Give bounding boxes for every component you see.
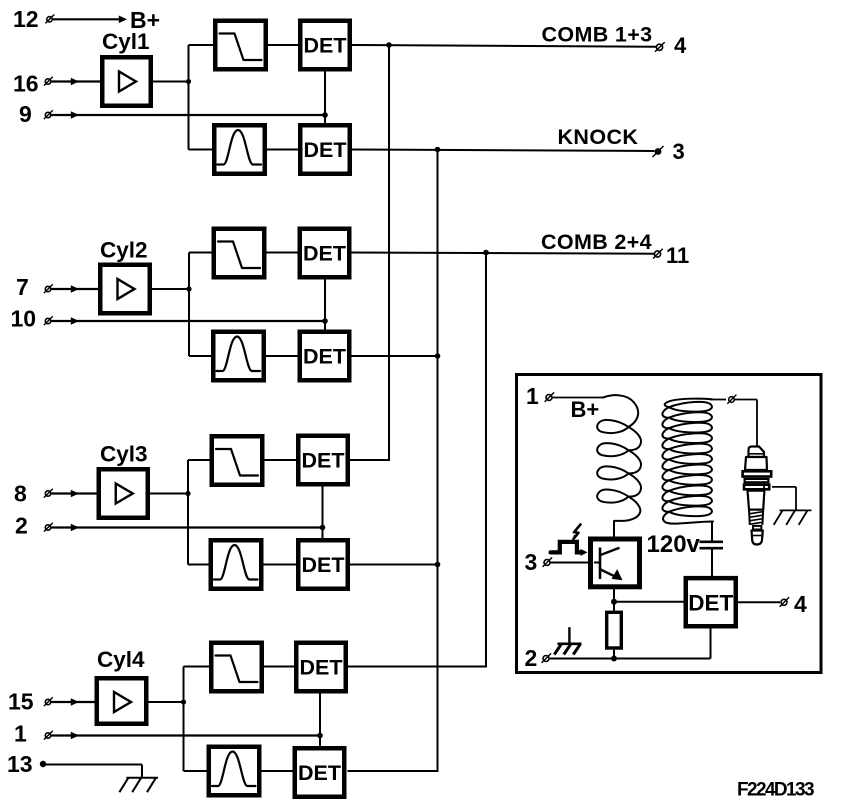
terminal sub pin 3 [543,557,553,567]
terminal pin 8 [44,489,53,498]
svg-text:2: 2 [525,645,538,671]
svg-text:DET: DET [298,761,341,785]
svg-text:COMB 2+4: COMB 2+4 [541,230,652,254]
low-pass filter Cyl1 [215,21,266,70]
node amp-split Cyl1 [186,79,191,84]
DET Cyl4 comb detector [296,643,346,692]
wire amp Cyl3 output [150,493,188,495]
svg-text:2: 2 [15,513,28,539]
amplifier Cyl3 [99,469,148,518]
terminal pin 7 [44,284,53,293]
node COMB bus junction [386,42,392,48]
svg-text:DET: DET [688,591,733,616]
svg-text:1: 1 [14,721,27,747]
low-pass filter Cyl4 [211,643,262,692]
node COMB 2+4 bus junction [483,250,489,256]
band-pass curve Cyl1 [218,130,262,165]
transistor Q1 box [591,539,640,587]
wire primary coil to transistor [613,521,615,538]
svg-text:DET: DET [300,656,343,680]
terminal pin 10 [44,316,53,325]
wire low-pass to DET Cyl4 [264,666,296,668]
node aux junction Cyl1 [322,112,328,118]
svg-text:DET: DET [302,553,345,577]
terminal pin 1 [44,731,53,740]
svg-text:F224D133: F224D133 [737,780,814,801]
svg-text:13: 13 [7,751,33,777]
wire transistor emitter down [613,589,615,602]
node emitter junction [611,599,617,605]
DET U2 (sub) [686,578,736,626]
band-pass curve Cyl3 [214,545,258,580]
wire low-pass to DET Cyl3 [265,459,299,461]
svg-text:11: 11 [666,243,689,268]
wire split vertical Cyl2 [188,253,190,357]
svg-text:8: 8 [14,481,27,507]
band-pass filter Cyl2 [213,332,264,381]
DET Cyl2 comb detector [300,229,350,278]
wire spark plug to ground [772,486,796,488]
svg-text:DET: DET [303,345,346,369]
wire split vertical Cyl1 [188,45,190,150]
wire COMB 1+3 bus vertical [388,45,390,460]
wire to low-pass Cyl2 [189,252,214,254]
DET Cyl2 knock detector [300,332,350,381]
node amp-split Cyl2 [186,286,191,291]
inductor secondary coil [662,399,713,524]
DET Cyl1 knock detector [300,125,350,174]
wire to band-pass Cyl3 [188,564,211,566]
ground spark plug [774,510,812,525]
wire split vertical Cyl4 [183,667,185,772]
wire capacitor to DET [711,550,713,578]
wire pin 16 to amp Cyl1 [51,80,102,82]
terminal pin 12 [45,15,54,24]
wire resistor to ground rail [613,650,615,659]
band-pass curve Cyl2 [217,337,261,372]
terminal pin 11 [653,249,663,259]
low-pass curve Cyl3 [216,449,258,476]
node resistor-ground junction [611,656,617,662]
wire KNOCK bus vertical [437,150,439,772]
band-pass filter Cyl3 [211,540,262,589]
DET Cyl4 knock detector [295,748,345,797]
inductor primary coil [597,395,641,537]
wire secondary top to spark plug [710,399,726,401]
wire split vertical Cyl3 [187,460,189,565]
spark plug [743,447,772,545]
wire junction to resistor [613,602,615,611]
amplifier Cyl4 [97,678,147,724]
amplifier Cyl1 [102,57,151,106]
wire to band-pass Cyl2 [189,355,213,357]
wire DET output (sub) [738,601,780,603]
wire Cyl3 DET to KNOCK bus [350,564,438,566]
svg-text:B+: B+ [571,397,600,422]
wire amp Cyl1 output [153,81,189,83]
svg-text:Cyl3: Cyl3 [100,442,148,467]
svg-text:DET: DET [302,449,345,473]
band-pass filter Cyl4 [209,747,260,796]
wire pin 13 [43,764,142,766]
wire low-pass to DET Cyl2 [267,252,300,254]
terminal pin 3 [655,148,662,155]
DET Cyl1 comb detector [300,21,350,70]
svg-text:12: 12 [13,6,39,32]
wire DET gate vertical Cyl3 [322,487,324,539]
wire pin 15 to amp Cyl4 [51,701,97,703]
amp triangle Cyl4 [114,692,131,712]
spark arrow (lightning) [574,525,581,539]
node KNOCK junction Cyl2 [435,353,441,359]
wire to low-pass Cyl4 [184,666,212,668]
terminal sub pin 1 [545,392,555,402]
node aux junction Cyl2 [322,318,328,324]
node KNOCK junction Cyl3 [435,562,441,568]
band-pass filter Cyl1 [214,125,265,174]
wire ground rail to DET bottom [710,628,712,659]
svg-text:10: 10 [11,306,37,332]
wire sub pin 3 to transistor [550,562,590,564]
svg-text:7: 7 [16,274,29,300]
wire Cyl4 DET to KNOCK bus [348,770,439,772]
svg-text:Cyl1: Cyl1 [102,29,150,54]
ground symbol pin 2 [554,627,581,654]
wire to band-pass Cyl4 [184,770,209,772]
amp triangle Cyl2 [118,279,135,299]
DET Cyl3 knock detector [298,540,348,589]
terminal pin 2 [44,523,53,532]
low-pass curve Cyl4 [216,656,258,683]
wire low-pass to DET Cyl1 [268,44,300,46]
terminal sub pin 4 [780,597,790,607]
wire band-pass to DET Cyl4 [262,770,295,772]
wire pin 8 to amp Cyl3 [51,492,99,494]
pulse symbol [551,542,583,553]
svg-text:Cyl2: Cyl2 [100,238,148,263]
sub-circuit box [517,375,822,673]
svg-text:9: 9 [19,101,32,127]
terminal pin 9 [44,110,53,119]
wire pin 7 to amp Cyl2 [51,288,100,290]
wire to low-pass Cyl1 [189,44,216,46]
amp triangle Cyl3 [116,484,133,504]
wire band-pass to DET Cyl3 [264,564,299,566]
low-pass curve Cyl2 [218,242,260,269]
low-pass filter Cyl3 [212,436,263,485]
wire pin 10 to DET gate Cyl2 [51,320,325,322]
node aux junction Cyl3 [320,525,326,531]
node KNOCK bus junction [435,147,441,153]
svg-text:3: 3 [673,139,685,164]
wire amp Cyl4 output [149,701,184,703]
wire pin 1 to DET gate Cyl4 [51,734,320,736]
terminal spark lead [727,395,736,404]
svg-text:COMB 1+3: COMB 1+3 [542,23,653,47]
wire DET gate vertical Cyl2 [324,280,326,330]
amp triangle Cyl1 [119,72,136,92]
node amp-split Cyl4 [181,699,186,704]
svg-text:15: 15 [8,689,34,715]
terminal pin 4 [655,42,665,52]
DET Cyl3 comb detector [298,436,348,485]
svg-text:4: 4 [674,33,687,58]
svg-text:KNOCK: KNOCK [558,125,639,149]
wire Cyl2 DET to KNOCK bus [352,355,438,357]
wire amp Cyl2 output [152,288,189,290]
wire KNOCK output line [352,150,655,152]
wire to low-pass Cyl3 [188,459,212,461]
band-pass curve Cyl4 [212,752,256,787]
terminal pin 15 [44,697,53,706]
amplifier Cyl2 [100,265,150,314]
wire pin 2 to DET gate Cyl3 [51,526,323,528]
svg-text:4: 4 [794,591,807,617]
wire DET gate vertical Cyl4 [319,694,321,747]
wire emitter to DET [614,601,685,603]
wire Cyl4 DET to COMB 2+4 bus [348,666,487,668]
svg-text:Cyl4: Cyl4 [97,647,145,672]
low-pass filter Cyl2 [214,229,265,278]
node amp-split Cyl3 [185,491,190,496]
svg-text:DET: DET [304,138,347,162]
transistor Q1 symbol [594,548,623,581]
capacitor 120v [700,542,724,548]
wire COMB 1+3 output line [352,45,656,47]
svg-text:DET: DET [303,242,346,266]
wire sub pin 1 to primary coil [552,397,604,399]
wire DET gate vertical Cyl1 [324,72,326,124]
terminal pin 13 [40,761,46,767]
terminal sub pin 2 [542,653,552,663]
wire to band-pass Cyl1 [189,149,215,151]
ground pin 13 [119,778,158,793]
svg-text:DET: DET [304,34,347,58]
svg-text:1: 1 [526,383,539,409]
terminal pin 16 [44,77,53,86]
wire secondary bottom to capacitor [711,522,713,541]
wire pin 9 to DET gate Cyl1 [51,114,325,116]
resistor R1 [607,612,622,648]
svg-text:120v: 120v [647,531,701,558]
svg-text:16: 16 [13,71,39,97]
wire ground rail [549,658,711,660]
wire COMB 2+4 bus vertical [485,253,487,667]
wire band-pass to DET Cyl1 [267,149,300,151]
wire COMB 2+4 output line [352,253,655,254]
wire Cyl3 DET to COMB bus [350,459,390,461]
wire band-pass to DET Cyl2 [266,355,300,357]
wire pin 12 to B+ [53,18,122,20]
svg-text:3: 3 [525,549,538,575]
low-pass curve Cyl1 [220,34,262,61]
node aux junction Cyl4 [317,733,323,739]
